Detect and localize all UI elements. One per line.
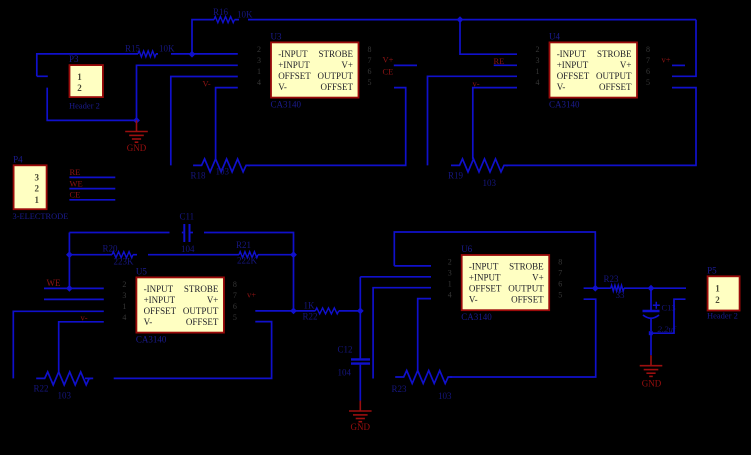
- ground GND2: [349, 401, 372, 422]
- svg-text:Header 2: Header 2: [69, 101, 100, 111]
- capacitor C11: [184, 224, 189, 242]
- wire C12 bottom to ground: [359, 365, 361, 401]
- svg-text:STROBE: STROBE: [509, 261, 544, 271]
- capacitor C12: [351, 359, 370, 363]
- svg-text:8: 8: [368, 45, 372, 54]
- svg-text:1: 1: [715, 284, 720, 294]
- wire R15 to U3 pin2: [156, 53, 238, 55]
- resistor R18 body: [193, 159, 250, 172]
- wire C13 node to ground: [650, 335, 652, 355]
- svg-text:GND: GND: [642, 378, 662, 388]
- svg-text:+INPUT: +INPUT: [278, 60, 310, 70]
- svg-text:5: 5: [233, 313, 237, 322]
- svg-text:6: 6: [646, 67, 650, 76]
- svg-text:5: 5: [646, 78, 650, 87]
- svg-text:C11: C11: [180, 212, 195, 222]
- svg-text:STROBE: STROBE: [597, 49, 632, 59]
- svg-text:4: 4: [536, 78, 540, 87]
- svg-text:8: 8: [233, 280, 237, 289]
- svg-text:V-: V-: [557, 82, 566, 92]
- svg-text:7: 7: [646, 56, 650, 65]
- junction ground node: [133, 117, 140, 124]
- resistor R22A body (1K): [315, 308, 338, 314]
- svg-text:RE: RE: [494, 56, 505, 66]
- wire U5 pin1 to R22 left: [13, 311, 104, 378]
- svg-text:CA3140: CA3140: [271, 100, 302, 110]
- svg-text:v-: v-: [473, 78, 480, 88]
- junction output node: [290, 308, 297, 315]
- wire R16 branch up: [192, 20, 214, 55]
- wire U4 pin4 v- to R19 wiper: [473, 88, 517, 159]
- svg-text:+INPUT: +INPUT: [144, 295, 176, 305]
- wire R20 to R21: [133, 254, 239, 256]
- wire U6 pin3: [360, 276, 431, 278]
- svg-text:-INPUT: -INPUT: [278, 49, 308, 59]
- header P4: [13, 154, 47, 209]
- op-amp U6: [448, 244, 563, 322]
- svg-text:222K: 222K: [237, 256, 258, 266]
- svg-text:1: 1: [448, 280, 452, 289]
- svg-text:2: 2: [77, 83, 82, 93]
- wire U6 feedback top: [394, 232, 595, 288]
- wire C13 top lead: [650, 288, 652, 310]
- svg-text:6: 6: [558, 280, 562, 289]
- svg-text:CA3140: CA3140: [461, 312, 492, 322]
- svg-text:10K: 10K: [159, 44, 175, 54]
- svg-text:R21: R21: [236, 240, 251, 250]
- svg-text:U6: U6: [461, 244, 472, 254]
- capacitor C13: [643, 302, 660, 331]
- wire U3 pin7 V+ stub: [394, 64, 417, 66]
- svg-text:7: 7: [368, 56, 372, 65]
- svg-text:GND: GND: [127, 143, 147, 153]
- svg-text:R18: R18: [191, 171, 207, 181]
- svg-text:1: 1: [35, 195, 40, 205]
- svg-text:OUTPUT: OUTPUT: [183, 306, 219, 316]
- svg-text:U3: U3: [271, 32, 282, 42]
- svg-text:7: 7: [558, 269, 562, 278]
- svg-text:V-: V-: [203, 78, 211, 88]
- svg-text:P3: P3: [69, 54, 79, 64]
- junction top net above U4: [457, 16, 464, 23]
- resistor R15 body: [138, 51, 156, 57]
- svg-text:V+: V+: [532, 272, 544, 282]
- svg-text:2: 2: [122, 280, 126, 289]
- svg-text:v+: v+: [247, 290, 256, 300]
- wire R21 to C11 drop: [258, 254, 294, 256]
- junction R21/C11 node: [290, 251, 297, 258]
- svg-text:WE: WE: [70, 178, 83, 188]
- wire R22 right to U5 pin5: [85, 322, 272, 379]
- svg-text:5: 5: [558, 291, 562, 300]
- junction R15/R16 node: [189, 51, 196, 58]
- wire U5 pin6 output: [255, 310, 315, 312]
- svg-text:1: 1: [257, 67, 261, 76]
- svg-text:P4: P4: [13, 154, 23, 164]
- svg-text:10K: 10K: [237, 10, 253, 20]
- svg-text:103: 103: [438, 391, 452, 401]
- wire U4 pin7 v+ stub: [672, 64, 685, 66]
- svg-text:R16: R16: [213, 7, 229, 17]
- wire U3 pin5 to R18 right: [248, 88, 406, 166]
- svg-text:V-: V-: [469, 294, 478, 304]
- wire R22A to C12 node: [339, 310, 361, 312]
- svg-text:V+: V+: [383, 54, 394, 64]
- svg-text:+INPUT: +INPUT: [469, 272, 501, 282]
- svg-text:V-: V-: [144, 317, 153, 327]
- ground GND1: [125, 120, 148, 142]
- svg-text:OFFSET: OFFSET: [144, 306, 177, 316]
- wire P3 pin2 to ground node: [47, 88, 136, 121]
- wire R23A to P5 pin1: [624, 287, 686, 289]
- junction R22A/C12/U6pin3: [357, 308, 364, 315]
- junction C13 bottom: [649, 331, 653, 335]
- svg-text:-INPUT: -INPUT: [144, 284, 174, 294]
- wire R16 to top net: [235, 19, 697, 21]
- svg-text:U5: U5: [136, 267, 147, 277]
- svg-text:103: 103: [483, 178, 497, 188]
- op-amp U5: [122, 267, 236, 345]
- svg-text:V+: V+: [620, 60, 632, 70]
- svg-text:V+: V+: [207, 295, 219, 305]
- wire U3 pin1 to R18 left: [171, 77, 238, 166]
- svg-text:+INPUT: +INPUT: [557, 60, 589, 70]
- op-amp U4: [536, 32, 651, 110]
- svg-text:7: 7: [233, 291, 237, 300]
- wire U5 pin3 stub: [44, 298, 104, 300]
- svg-text:R23: R23: [604, 274, 620, 284]
- svg-text:CE: CE: [383, 66, 394, 76]
- svg-text:103: 103: [58, 391, 72, 401]
- svg-text:STROBE: STROBE: [318, 49, 353, 59]
- svg-text:5: 5: [368, 78, 372, 87]
- svg-text:P5: P5: [707, 265, 717, 275]
- svg-text:OUTPUT: OUTPUT: [508, 283, 544, 293]
- wire U5 pin4 v- to R22 wiper: [59, 322, 104, 372]
- svg-text:R20: R20: [103, 244, 119, 254]
- header P5: [707, 265, 740, 310]
- wire U4 pin3 RE stub: [494, 64, 517, 66]
- wire U6 pin1 to R23 left: [373, 288, 431, 379]
- wire U3 pin3 to ground node: [137, 65, 238, 120]
- svg-text:CA3140: CA3140: [549, 100, 580, 110]
- svg-text:1: 1: [122, 302, 126, 311]
- wire P3 pin1 stub: [37, 75, 48, 77]
- ground GND3: [640, 355, 663, 376]
- op-amp U3: [257, 32, 372, 110]
- svg-text:1: 1: [536, 67, 540, 76]
- svg-text:6: 6: [233, 302, 237, 311]
- wire U3 pin4 V- to R18 wiper: [216, 88, 238, 159]
- svg-text:33: 33: [616, 290, 626, 300]
- resistor R22 body: [36, 372, 93, 385]
- wire U6 pin4 to R23 wiper: [418, 299, 431, 371]
- svg-text:U4: U4: [549, 32, 560, 42]
- wire C13 node to P5 pin2: [651, 299, 686, 333]
- svg-text:v+: v+: [662, 54, 671, 64]
- resistor R20 body: [112, 252, 133, 258]
- svg-text:OFFSET: OFFSET: [278, 71, 311, 81]
- resistor R23 body: [395, 371, 452, 384]
- svg-text:2: 2: [448, 258, 452, 267]
- wire U6 pin6 output: [584, 287, 611, 289]
- svg-text:4: 4: [122, 313, 126, 322]
- svg-text:STROBE: STROBE: [184, 284, 219, 294]
- svg-text:OUTPUT: OUTPUT: [318, 71, 354, 81]
- svg-text:R22: R22: [34, 384, 49, 394]
- svg-text:1K: 1K: [304, 300, 316, 310]
- header P3: [69, 54, 103, 97]
- svg-text:R22: R22: [303, 312, 318, 322]
- svg-text:R15: R15: [125, 44, 141, 54]
- svg-text:RE: RE: [70, 167, 81, 177]
- svg-text:3: 3: [448, 269, 452, 278]
- svg-text:2: 2: [257, 45, 261, 54]
- svg-text:3-ELECTRODE: 3-ELECTRODE: [13, 212, 69, 221]
- wire U4 pin5 to R19 right: [506, 88, 696, 166]
- svg-text:2: 2: [715, 295, 720, 305]
- svg-text:1: 1: [77, 72, 82, 82]
- svg-text:2: 2: [536, 45, 540, 54]
- svg-text:C12: C12: [338, 345, 353, 355]
- junction feedback/output: [592, 285, 599, 292]
- svg-text:OFFSET: OFFSET: [511, 294, 544, 304]
- wire top net to U4 pin2: [460, 20, 517, 55]
- svg-text:4: 4: [448, 291, 452, 300]
- wire P4 pin1 CE stub: [69, 199, 115, 201]
- svg-text:OFFSET: OFFSET: [469, 283, 502, 293]
- resistor R16 body: [214, 17, 235, 23]
- resistor R23A body (33): [611, 285, 624, 291]
- wire C11 top left: [69, 232, 183, 234]
- svg-text:OFFSET: OFFSET: [186, 317, 219, 327]
- wire WE net label stub: [44, 287, 104, 289]
- svg-text:CE: CE: [70, 190, 81, 200]
- svg-text:OFFSET: OFFSET: [320, 82, 353, 92]
- svg-text:GND: GND: [351, 422, 371, 432]
- svg-text:WE: WE: [47, 278, 61, 288]
- wire U4 pin6 output to top net: [672, 20, 696, 77]
- svg-text:V-: V-: [278, 82, 287, 92]
- wire WE riser: [68, 233, 70, 289]
- svg-text:3: 3: [536, 56, 540, 65]
- wire P4 pin2 WE stub: [69, 188, 115, 190]
- svg-text:4: 4: [257, 78, 261, 87]
- svg-text:V+: V+: [341, 60, 353, 70]
- svg-text:104: 104: [338, 368, 352, 378]
- svg-text:R19: R19: [448, 171, 464, 181]
- svg-text:v-: v-: [81, 312, 88, 322]
- svg-text:Header 2: Header 2: [707, 311, 738, 321]
- svg-text:103: 103: [216, 167, 230, 177]
- wire P4 pin3 RE stub: [69, 176, 115, 178]
- svg-text:2: 2: [35, 184, 40, 194]
- svg-text:CA3140: CA3140: [136, 335, 167, 345]
- svg-text:3: 3: [35, 173, 40, 183]
- svg-text:-INPUT: -INPUT: [469, 261, 499, 271]
- svg-text:223K: 223K: [114, 257, 135, 267]
- svg-text:3: 3: [257, 56, 261, 65]
- svg-text:104: 104: [181, 244, 195, 254]
- resistor R21 body: [239, 252, 258, 258]
- svg-text:6: 6: [368, 67, 372, 76]
- svg-text:R23: R23: [392, 384, 408, 394]
- svg-text:OFFSET: OFFSET: [599, 82, 632, 92]
- wire C11 right to U5 output node: [191, 233, 294, 311]
- wire P3 pin1 to R15: [37, 54, 138, 76]
- wire U4 pin1 to R19 left: [428, 76, 518, 165]
- junction WE/R20: [66, 251, 73, 258]
- wire U6 pin5 to R23 right: [450, 299, 596, 377]
- junction WE/pin2: [66, 285, 73, 292]
- svg-text:3: 3: [122, 291, 126, 300]
- wire C12 node up to U6 pin3 row: [359, 277, 361, 311]
- resistor R19 body: [451, 159, 508, 172]
- wire C12 top lead: [359, 311, 361, 359]
- junction output/C13: [648, 285, 655, 292]
- svg-text:8: 8: [558, 258, 562, 267]
- wire R20 left lead: [69, 254, 112, 256]
- svg-text:OFFSET: OFFSET: [557, 71, 590, 81]
- svg-text:8: 8: [646, 45, 650, 54]
- svg-text:-INPUT: -INPUT: [557, 49, 587, 59]
- svg-text:OUTPUT: OUTPUT: [596, 71, 632, 81]
